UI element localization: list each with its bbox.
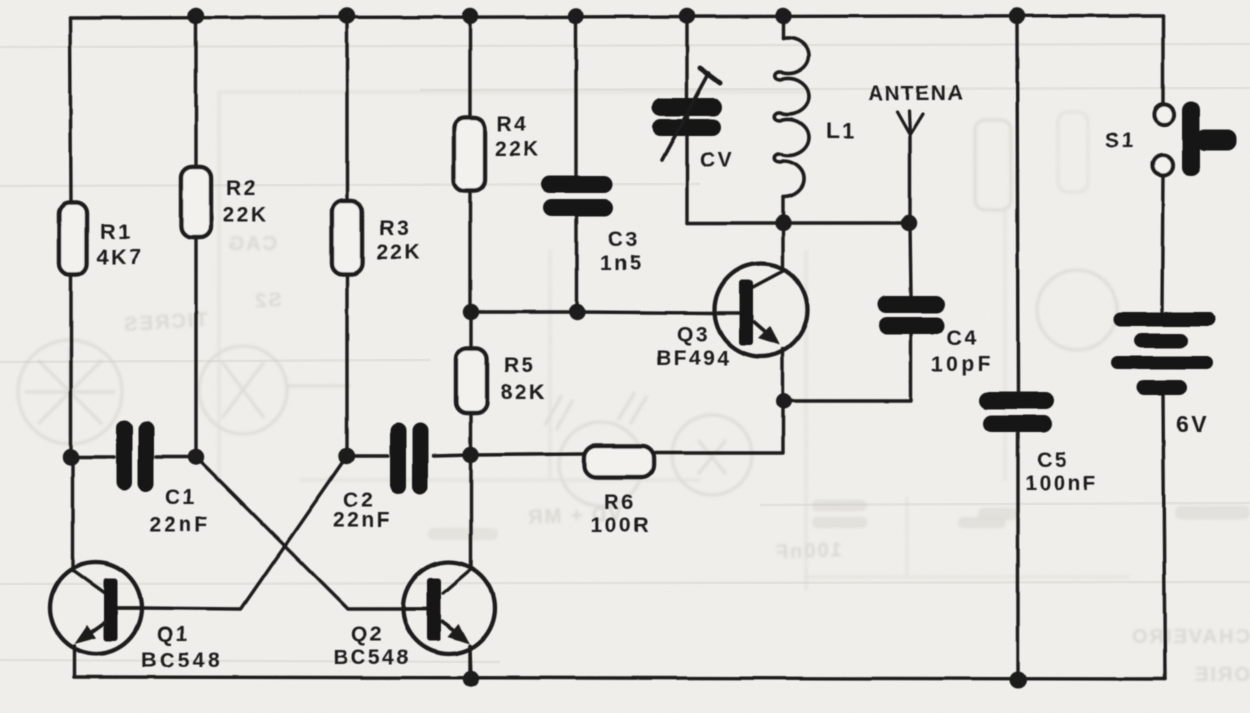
transistor Q1 [50,562,142,654]
wire Q2 emitter to bottom rail [468,646,471,679]
CV arrow [662,73,709,160]
inductor L1 [775,37,809,197]
svg-text:Q2: Q2 [351,623,384,646]
capacitor C3 [541,176,613,216]
capacitor C2 [390,423,428,494]
wire Q2 base cross-coupling [196,457,404,609]
capacitor C5 [979,392,1054,432]
wire Q1 collector [73,457,105,593]
wire antenna to C4 [910,135,911,296]
node C5 top [1009,8,1025,24]
wire CV branch [685,16,688,223]
svg-text:R3: R3 [379,217,411,240]
svg-text:CAG: CAG [227,233,277,255]
resistor R6 [584,446,654,477]
svg-text:CHAVEIRO: CHAVEIRO [1130,626,1250,648]
wire L1 bottom [781,197,784,223]
node R2 top [188,8,204,24]
wire battery to bottom rail [1163,393,1165,679]
svg-text:22nF: 22nF [333,509,392,532]
variable capacitor CV [652,98,722,136]
svg-text:CV: CV [700,149,734,172]
svg-text:L1: L1 [826,118,857,143]
switch S1 [1154,104,1174,124]
wire Q2 collector [443,455,471,593]
resistor R2 [181,167,211,237]
svg-text:100R: 100R [591,514,651,537]
wire top rail [70,16,1163,19]
svg-text:82K: 82K [501,381,547,404]
svg-text:R6: R6 [604,491,636,514]
wire Q1 base cross-coupling [141,456,347,609]
wire C1 horizontal [71,455,196,458]
svg-text:R1: R1 [100,221,132,244]
wire R4 branch [468,16,471,312]
resistor R1 [59,203,87,275]
wire CV bottom to antenna junction [687,221,909,224]
wire Q3 base [471,312,739,313]
wire C4 bottom to Q3 emitter junction [784,334,911,401]
wire Q3 collector [753,223,783,287]
capacitor C4 [877,296,945,334]
svg-text:R5: R5 [504,354,536,377]
svg-text:C5: C5 [1037,449,1069,472]
svg-text:22K: 22K [223,203,269,226]
svg-text:4K7: 4K7 [97,246,143,269]
wire R1 bottom to C1 junction [69,275,72,457]
svg-text:C3: C3 [608,228,640,251]
node C1 left [63,449,79,465]
wire bottom rail [74,677,1165,679]
capacitor C1 [116,420,154,492]
battery B1 [1111,312,1215,395]
svg-text:BC548: BC548 [333,646,411,669]
transistor Q3 [715,264,808,357]
svg-text:C1: C1 [165,486,197,509]
wire Q3 emitter down to R6 [653,349,783,453]
node Q3 emitter C4 [776,393,792,409]
svg-text:Q3: Q3 [677,323,710,346]
node antenna [901,215,917,231]
wire R2 branch [194,16,197,457]
node C1 right [188,449,204,465]
node R4 R5 [463,304,479,320]
wire S1 to battery [1162,174,1163,311]
svg-text:1n5: 1n5 [600,252,644,275]
svg-text:ORIE: ORIE [1193,664,1250,686]
node R4 top [462,8,478,24]
node Q2 emitter rail [463,671,479,687]
svg-text:10pF: 10pF [931,353,994,376]
wire Q1 emitter to bottom rail [72,646,75,677]
svg-text:R2: R2 [226,177,258,200]
wire C2 horizontal [347,455,471,456]
svg-text:C4: C4 [947,327,979,350]
resistor R3 [332,201,362,274]
wire R5 branch [469,312,472,455]
transistor Q2 [403,562,495,654]
node C3 top [568,8,584,24]
antenna [897,111,923,135]
svg-text:22K: 22K [495,138,541,161]
svg-text:ANTENA: ANTENA [868,82,964,105]
wire left vertical (V+ to R1) [70,18,71,203]
wire C3 branch [576,16,577,312]
wire Q2 emitter junction to bottom rail [470,646,471,679]
svg-text:R4: R4 [497,113,529,136]
svg-text:6V: 6V [1176,411,1209,437]
svg-text:S2: S2 [253,289,283,312]
svg-text:Q1: Q1 [157,623,190,646]
svg-text:BF494: BF494 [656,347,732,370]
node L1 bottom [775,215,791,231]
resistor R4 [454,118,485,191]
svg-text:22nF: 22nF [149,513,211,536]
svg-text:100nF: 100nF [1025,472,1098,495]
node C2 right [463,447,479,463]
node L1 top [775,8,791,24]
wire R3 branch [345,16,348,456]
wire C5 branch [1017,16,1018,680]
wire L1 top [781,16,784,38]
node CV top [679,8,695,24]
node C5 rail [1010,672,1027,689]
node R3 top [339,8,355,24]
wire R6 left [471,454,584,455]
node C3 bottom [569,304,585,320]
svg-text:S1: S1 [1105,129,1136,152]
wire S1 top feed [1161,16,1164,104]
svg-text:22K: 22K [376,241,422,264]
resistor R5 [456,348,487,413]
node C2 left [339,448,355,464]
svg-text:100nF: 100nF [774,539,843,564]
svg-text:BC548: BC548 [141,649,222,672]
